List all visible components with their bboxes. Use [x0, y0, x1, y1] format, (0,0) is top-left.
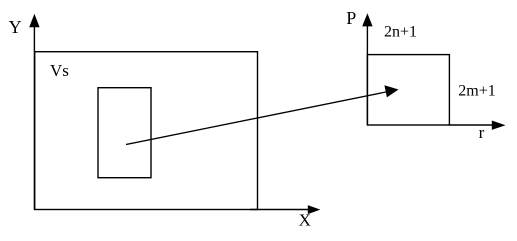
svg-text:P: P [346, 8, 356, 28]
svg-text:X: X [299, 210, 311, 229]
mapping arrow (block to template) [126, 92, 387, 145]
rectangle Vs (source image frame) [35, 52, 258, 210]
axis X arrowhead [308, 205, 321, 214]
axis r arrowhead [492, 121, 506, 130]
axis Y (vertical line) [33, 25, 35, 210]
mapping arrowhead [384, 85, 398, 97]
inner block (sub-image rectangle) [98, 88, 151, 178]
svg-text:Y: Y [9, 17, 22, 37]
axis r (horizontal line) [449, 124, 493, 126]
svg-text:2n+1: 2n+1 [384, 24, 417, 41]
template square (2n+1 x 2m+1 window) [367, 55, 449, 125]
svg-text:r: r [479, 123, 485, 142]
axis P arrowhead [362, 13, 372, 26]
svg-text:2m+1: 2m+1 [458, 82, 495, 99]
axis P (vertical line) [366, 25, 368, 125]
svg-text:Vs: Vs [50, 61, 69, 80]
axis X (horizontal line) [250, 209, 309, 211]
axis Y arrowhead [29, 14, 39, 27]
